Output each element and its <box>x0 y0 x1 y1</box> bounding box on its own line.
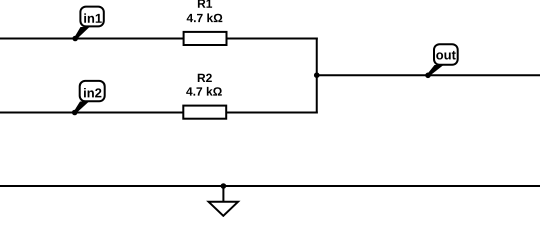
wire net in1 left segment <box>0 38 184 40</box>
junction node on ground rail <box>221 183 227 189</box>
wire vertical bus joining R1 and R2 outputs <box>316 38 318 114</box>
resistor R1 <box>184 32 227 45</box>
node out junction dot <box>425 73 431 79</box>
resistor R2 <box>183 106 226 119</box>
ground symbol <box>209 202 238 216</box>
wire net out to right edge <box>317 74 540 76</box>
node in1 junction dot <box>72 36 78 42</box>
resistor R1 reference label R1 <box>198 0 212 8</box>
resistor R2 value label 4.7 kOhm <box>186 87 222 96</box>
wire ground stub <box>222 186 224 202</box>
net label in1 text <box>84 13 102 22</box>
resistor R2 reference label R2 <box>198 74 212 82</box>
node in2 junction dot <box>72 110 78 116</box>
wire net in2 left segment <box>0 112 184 114</box>
wire R2 right lead to vertical bus <box>227 112 318 114</box>
net label in1 callout tail <box>74 27 89 40</box>
net label in2 callout tail <box>74 102 89 114</box>
net label out callout box <box>434 44 458 65</box>
resistor R1 value label 4.7 kOhm <box>187 13 223 22</box>
wire ground rail <box>0 185 540 187</box>
wire R1 right lead to vertical bus <box>227 38 318 40</box>
net label in2 text <box>84 88 101 97</box>
net label out callout tail <box>427 65 444 76</box>
junction node at out wire tap <box>314 72 320 78</box>
net label in1 callout box <box>80 7 103 27</box>
net label in2 callout box <box>80 81 105 101</box>
net label out text <box>436 51 456 60</box>
